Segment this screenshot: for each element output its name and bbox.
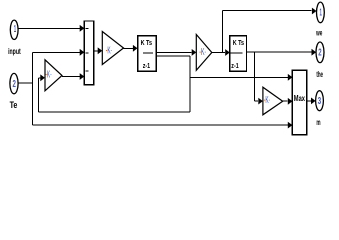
inner bottom wire [38, 111, 190, 113]
svg-text:K Ts: K Ts [233, 38, 244, 47]
svg-text:-K-: -K- [264, 95, 271, 106]
wire Te to outer riser [18, 82, 32, 84]
wire input to sum in1 [18, 27, 80, 29]
output port we [317, 2, 325, 23]
svg-text:m: m [316, 117, 320, 127]
outer riser [31, 52, 33, 125]
svg-text:3: 3 [318, 96, 322, 107]
svg-text:the: the [316, 69, 323, 79]
gain K3 [196, 35, 212, 71]
wire outer to sum in2 [32, 51, 80, 53]
svg-text:-K-: -K- [199, 47, 206, 58]
output port m [316, 91, 324, 111]
wire gain K4 to Max in2 [283, 100, 288, 102]
gain K2 (after sum) [102, 32, 123, 65]
outer bottom wire to Max in3 [32, 124, 288, 126]
gain K4 riser [254, 52, 256, 101]
svg-text:2: 2 [13, 79, 17, 90]
svg-text:1: 1 [320, 8, 323, 19]
svg-text:2: 2 [318, 48, 322, 59]
gain K1 (lower left) [45, 60, 62, 91]
svg-text:input: input [8, 46, 21, 56]
svg-text:-K-: -K- [45, 70, 52, 81]
svg-text:Max: Max [294, 94, 306, 103]
wire into gain K4 [255, 100, 259, 102]
we wire [223, 9, 312, 11]
svg-text:1: 1 [14, 24, 17, 35]
discrete integrator 1 [138, 36, 157, 71]
Max block [292, 70, 306, 134]
input port 1 [10, 20, 18, 39]
wire gain K3 to integrator2 [212, 52, 225, 54]
wire gain K2 to integrator1 [124, 47, 133, 49]
wire sum out to gain K2 [94, 50, 98, 52]
spur from integrator1 to riser [156, 55, 190, 57]
wire Max to port m [307, 100, 311, 102]
inner riser right [189, 56, 191, 112]
svg-text:z-1: z-1 [143, 61, 151, 70]
wire integrator2 to port the [247, 51, 312, 53]
input port 2 Te [10, 73, 18, 93]
wire integrator1 to gain K3 [156, 51, 191, 53]
wire riser to Max in1 [190, 76, 289, 78]
sum block [84, 21, 93, 85]
svg-text:we: we [316, 28, 323, 38]
wire into gain K1 [38, 77, 41, 79]
gain K4 (lower right) [263, 87, 283, 115]
svg-text:z-1: z-1 [231, 61, 239, 70]
svg-text:K Ts: K Ts [141, 38, 152, 47]
wire gain K1 to sum in3 [62, 76, 81, 78]
svg-text:Te: Te [10, 100, 18, 110]
svg-text:-K-: -K- [106, 46, 113, 57]
discrete integrator 2 [230, 36, 247, 71]
output port the [316, 42, 324, 63]
inner riser left [37, 78, 39, 112]
we riser [222, 10, 224, 52]
